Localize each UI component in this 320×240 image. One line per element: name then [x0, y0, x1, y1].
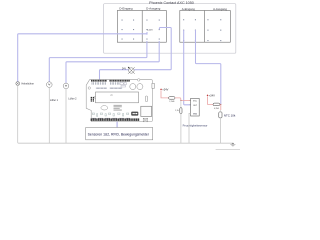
wire: NTC to GND bus	[219, 110, 221, 112]
svg-text:Hebebühne: Hebebühne	[22, 83, 35, 86]
header pins bottom row	[91, 118, 140, 121]
mounting pad with X	[143, 118, 147, 122]
svg-text:NTC 10k: NTC 10k	[224, 114, 236, 118]
ground symbol	[230, 143, 235, 146]
pin VCC	[189, 99, 192, 101]
wire: node to resistor R2 top	[180, 100, 182, 107]
regulator parts	[120, 83, 123, 85]
logo oval	[101, 106, 108, 110]
pin label strip right	[110, 88, 123, 89]
mounting hole top	[137, 79, 140, 82]
junction node voltage divider	[180, 100, 181, 101]
ICSP header J3	[91, 97, 94, 102]
svg-text:+24V: +24V	[209, 94, 215, 98]
svg-text:Sensoren 1&2, RFID, Bewegungsm: Sensoren 1&2, RFID, Bewegungsmelder	[88, 133, 150, 137]
divider D-module	[141, 11, 143, 43]
wire: lamp E1 to D-Ausgang terminal (24V loop)	[18, 32, 147, 82]
thermistor RT1 NTC	[219, 112, 222, 118]
silkscreen pin names bottom	[92, 117, 130, 119]
wire: controller board to sensor group box	[116, 122, 118, 128]
divider A-module	[204, 11, 206, 43]
svg-text:Feuchtigkeitssensor: Feuchtigkeitssensor	[183, 124, 208, 128]
wire: R1 to sensor VCC node	[175, 98, 191, 100]
wire: lamp E1 to GND bus	[18, 85, 233, 143]
USB connector J1	[141, 106, 152, 116]
header pins top row left	[91, 80, 107, 82]
svg-text:4,7kΩ: 4,7kΩ	[214, 108, 220, 110]
analog I/O module block	[180, 11, 231, 43]
svg-text:Phoenix Contact AXC 1050: Phoenix Contact AXC 1050	[149, 1, 194, 5]
reset switch S1	[131, 112, 138, 116]
svg-text:VCC: VCC	[193, 101, 198, 103]
fan M1 (Luefter 1)	[47, 82, 53, 88]
svg-text:Lüfter 1: Lüfter 1	[50, 99, 59, 102]
junction node NTC divider	[220, 104, 221, 105]
svg-text:GND: GND	[193, 113, 198, 115]
capacitor C3	[145, 96, 147, 102]
wire: fan M2 to D-Ausgang	[66, 41, 159, 83]
resistor R2 1,1k	[180, 108, 182, 114]
pin legs under headers	[92, 82, 119, 85]
silkscreen text block	[114, 105, 122, 111]
wire: lamp L1 left lead to controller board pin	[100, 70, 129, 81]
lamp L1 24V indicator	[128, 67, 135, 74]
capacitor C1	[130, 84, 136, 90]
wire: +24V to resistor R3	[208, 96, 214, 104]
arrow mark on lamp L1	[128, 67, 130, 69]
mounting hole left	[88, 87, 90, 89]
svg-text:1,1k: 1,1k	[175, 110, 179, 112]
svg-text:Lüfter 2: Lüfter 2	[68, 97, 77, 100]
MCU IC U2	[96, 92, 139, 103]
bottom rail segment	[216, 149, 240, 151]
terminal pins D-Ausgang	[146, 20, 159, 40]
controller board A1 (Arduino)	[86, 79, 154, 122]
wire: A-Eingang ch1 to humidity sensor OUT	[184, 30, 191, 105]
svg-text:24V: 24V	[122, 68, 127, 70]
resistor R1 2.2k	[169, 97, 175, 100]
svg-text:+24V: +24V	[162, 88, 168, 92]
power flag +24V (right)	[207, 94, 209, 96]
terminal pins D-Eingang	[122, 20, 135, 40]
wire: sensor GND to bus	[189, 113, 191, 143]
svg-text:A-Eingang: A-Eingang	[182, 7, 196, 11]
fan M2 (Luefter 2)	[63, 83, 69, 89]
ground junction tick	[232, 142, 234, 144]
svg-text:0-24V: 0-24V	[147, 30, 153, 32]
capacitor C2	[137, 84, 143, 90]
wire: A-Eingang ch2 to NTC node	[196, 30, 221, 104]
svg-text:2,2kΩ: 2,2kΩ	[169, 101, 175, 103]
svg-text:A-Ausgang: A-Ausgang	[213, 7, 227, 11]
wire: +24V to resistor R1	[161, 90, 169, 98]
svg-text:D-Eingang: D-Eingang	[119, 6, 133, 10]
power flag +24V (left)	[160, 88, 162, 90]
digital I/O module block	[117, 11, 166, 43]
PLC outer enclosure U1 Phoenix Contact AXC 1050	[104, 4, 236, 54]
sensor group box	[86, 128, 153, 140]
pin OUT	[189, 104, 192, 106]
lamp E1 (Hebebuehne)	[16, 82, 20, 86]
terminal pins A-Eingang	[183, 19, 196, 41]
resistor R3 4,7k	[213, 103, 220, 106]
wire: D-Ausgang to lamp L1 (right lead)	[134, 28, 171, 70]
svg-text:D-Ausgang: D-Ausgang	[146, 6, 160, 10]
terminal pins A-Ausgang	[207, 19, 221, 41]
power jack J2	[152, 83, 155, 88]
wire: fan M2 to GND bus	[65, 89, 67, 144]
passives row	[92, 113, 129, 116]
humidity sensor module B1	[191, 98, 200, 116]
wire: fan M1 to GND bus	[48, 87, 50, 143]
wire: fan M1 to D-Ausgang	[49, 41, 147, 82]
header pins top row right	[109, 80, 129, 82]
wire: R3 to NTC node	[220, 104, 221, 110]
pin GND	[189, 112, 192, 114]
wire: R2 to GND bus	[180, 114, 182, 144]
pin label strip left	[96, 88, 107, 89]
